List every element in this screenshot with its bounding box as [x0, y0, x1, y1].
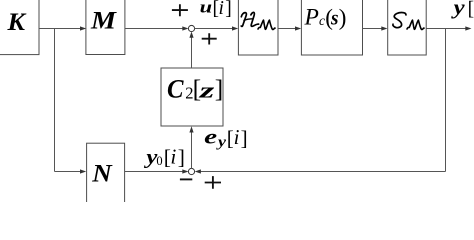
svg-text:M: M: [90, 7, 117, 34]
wire S_M to output y: [426, 26, 471, 30]
wire N to S2: [125, 169, 189, 173]
script S: [393, 13, 406, 28]
svg-text:i: i: [234, 125, 240, 149]
svg-text:): ): [339, 5, 347, 30]
svg-text:c: c: [319, 13, 325, 28]
svg-text:0: 0: [156, 154, 162, 168]
summing node S2 (bottom): [188, 168, 194, 174]
wire branch to N: [55, 169, 87, 173]
script H stroke 2: right stem with bottom tail: [251, 12, 259, 26]
block P_c(s): [301, 0, 362, 55]
script M subscript of S block: [407, 20, 424, 29]
wire S1 to H_M: [194, 26, 238, 30]
plus sign at S1 (input from C_2): [202, 33, 217, 44]
block S_M (sampler): [388, 0, 427, 55]
wire P_c to S_M: [363, 26, 388, 30]
wire K to M: [39, 26, 86, 30]
svg-text:K: K: [6, 9, 27, 36]
label e_y[i]: [204, 125, 247, 150]
plus sign at S2 (feedback input): [205, 176, 221, 189]
block C_2[z] (controller): [161, 68, 223, 126]
svg-text:]: ]: [241, 126, 248, 150]
plus sign at S1 (input from M): [172, 4, 188, 16]
summing node S1 (top): [188, 25, 194, 31]
svg-text:u: u: [200, 0, 213, 17]
svg-text:]: ]: [178, 145, 185, 169]
script M subscript of H block: [258, 20, 275, 29]
wire M to summing node S1: [125, 26, 189, 30]
block N: [87, 143, 125, 209]
wire feedback vertical from y branch: [445, 29, 447, 172]
label y_0[i]: [143, 144, 185, 169]
svg-text:s: s: [330, 8, 339, 30]
wire C_2 up to S1: [189, 32, 193, 69]
svg-text:C: C: [167, 75, 184, 104]
svg-text:y: y: [216, 135, 227, 151]
script H crossbar: [244, 19, 253, 21]
svg-text:i: i: [170, 144, 176, 168]
wire H_M to P_c: [278, 26, 301, 30]
svg-text:]: ]: [215, 74, 224, 103]
label y[i] (output, clipped at right edge): [450, 0, 474, 20]
svg-text:z: z: [198, 78, 215, 103]
minus sign at S2 (input from N): [180, 178, 192, 180]
svg-text:P: P: [304, 5, 319, 31]
block M: [86, 0, 125, 55]
wire branch down from K output: [54, 29, 56, 172]
svg-text:]: ]: [225, 0, 232, 20]
svg-text:e: e: [204, 127, 217, 149]
block H_M (hold): [238, 0, 278, 55]
wire S2 up to C_2 (error signal): [189, 126, 193, 168]
wire feedback horizontal to S2: [195, 169, 446, 173]
script H stroke 1: left stem with top curl: [241, 13, 246, 27]
svg-text:i: i: [219, 0, 224, 19]
svg-text:[: [: [468, 0, 474, 20]
label u[i]: [200, 0, 232, 20]
block K: [0, 0, 39, 55]
svg-text:N: N: [91, 158, 113, 187]
